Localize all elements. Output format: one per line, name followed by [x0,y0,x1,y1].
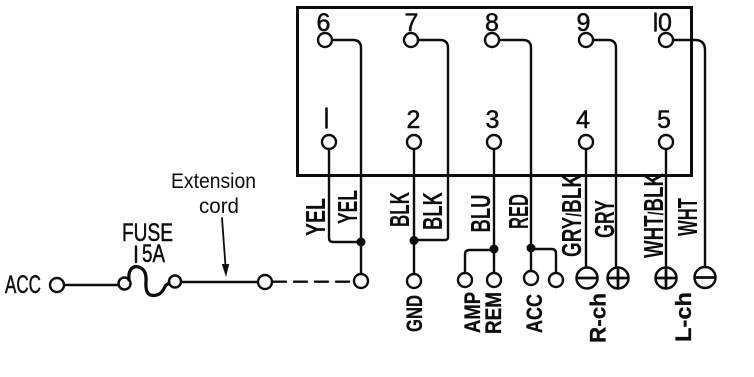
junction BLK [410,236,419,245]
wire pin3 BLU [493,149,495,273]
pin 9 [579,33,593,47]
wire RED branch to spare terminal [531,249,556,273]
wire YEL junction to extension terminal [360,242,362,274]
svg-text:REM: REM [481,292,506,334]
svg-text:GRY: GRY [589,200,620,238]
svg-text:L-ch: L-ch [671,292,696,342]
svg-text:RED: RED [503,194,534,229]
wire pin7 BLK [417,40,448,240]
svg-text:ACC: ACC [5,271,41,299]
pin 7 [404,33,418,47]
terminal R-ch minus [577,268,598,289]
terminal extension cord [354,274,368,288]
wire pin6 YEL [332,40,361,238]
wire pin8 RED [499,40,531,247]
svg-text:5A: 5A [142,240,165,268]
pin 1 label [325,109,328,128]
wire pin9 GRY [593,40,616,268]
terminal R-ch plus [608,268,629,289]
svg-text:WHT/BLK: WHT/BLK [638,173,669,258]
svg-text:YEL: YEL [300,198,331,236]
wire ACC to fuse [64,284,118,286]
pin 6 [318,33,332,47]
terminal ACC source [50,278,64,292]
pin 2 [407,135,421,149]
terminal ACC [524,271,538,285]
wire pin1 YEL [329,149,357,242]
svg-text:5: 5 [657,106,671,134]
terminal L-ch plus [656,268,677,289]
terminal plug left [258,275,272,289]
wire BLU branch to AMP [465,250,494,273]
wire extension cord dashed [273,281,353,283]
pin 10 [659,33,673,47]
svg-text:YEL: YEL [332,190,363,224]
wire pin5 WHT/BLK [665,149,667,268]
label 15A [136,240,165,268]
pin 4 [579,135,593,149]
terminal spare [549,273,563,287]
svg-text:2: 2 [407,106,421,134]
svg-text:R-ch: R-ch [586,293,611,343]
junction RED [527,244,536,253]
wire pin10 WHT [673,40,705,266]
wire RED junction to ACC [530,248,532,271]
svg-text:4: 4 [576,106,590,134]
svg-text:BLK: BLK [417,192,448,230]
terminal GND [407,274,421,288]
terminal AMP [458,273,472,287]
junction BLU [490,245,499,254]
svg-text:Extension: Extension [171,170,256,193]
pin 10 label [656,9,672,37]
pin 1 [322,135,336,149]
svg-text:GND: GND [402,295,427,332]
svg-text:WHT: WHT [672,198,703,236]
svg-text:cord: cord [199,195,239,218]
svg-text:BLU: BLU [465,195,496,233]
terminal REM [487,273,501,287]
pin 3 [487,135,501,149]
connector box [298,8,692,176]
svg-text:ACC: ACC [522,294,547,333]
junction YEL [357,238,366,247]
leader arrow extension cord [222,218,226,266]
svg-text:3: 3 [486,106,500,134]
wire pin2 BLK-GND [413,149,415,274]
pin 8 [485,33,499,47]
wire pin4 GRY/BLK [585,149,587,268]
svg-text:BLK: BLK [384,192,415,227]
terminal L-ch minus [695,267,716,288]
pin 5 [659,135,673,149]
fuse F1 15A [119,267,182,296]
wire fuse to plug [181,281,258,284]
